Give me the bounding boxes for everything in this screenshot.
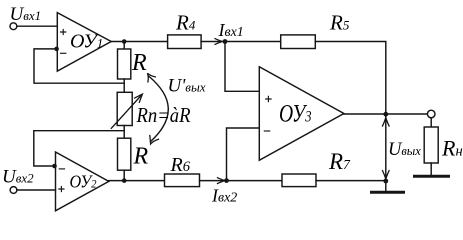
node OU2 minus input (52, 164, 57, 169)
wire OU3 output (344, 113, 428, 115)
OU2 plus pin (59, 186, 64, 191)
wire OU2 output to R6 (109, 180, 165, 182)
op-amp U2 (OU2) triangle (56, 152, 109, 211)
OU1 plus pin (61, 29, 66, 34)
ground (load) (415, 175, 449, 178)
wire Ivx1 node down to OU3 plus input (225, 42, 259, 92)
node OU1 minus input (54, 47, 59, 52)
voltage arrow Uvyh (double headed) (385, 116, 387, 180)
resistor R (lower) (118, 138, 131, 170)
OU1 minus pin (61, 52, 66, 54)
node ground junction (383, 179, 388, 184)
node output (383, 112, 388, 117)
resistor R5 (281, 35, 316, 49)
wire stem R lower to OU2 output node (123, 170, 125, 180)
resistor R (upper) (118, 49, 131, 79)
wire Ivx2 node up to OU3 minus input (227, 128, 260, 181)
wire Ivx1 node to R5 (225, 41, 281, 43)
svg-text:R: R (131, 50, 147, 76)
svg-text:Uвх1: Uвх1 (10, 4, 42, 25)
wire R6 to node Ivx2 (200, 180, 225, 182)
OU2 minus pin (59, 168, 64, 170)
Rn adjustment arrow (111, 95, 141, 128)
wire OU2 feedback loop (34, 131, 124, 166)
op-amp U1 (OU1) triangle (57, 13, 111, 72)
annotation curved arrow U'vyh (149, 76, 169, 142)
resistor R4 (168, 35, 202, 49)
resistor R7 (282, 174, 316, 187)
resistor Rn (adjustable) (117, 92, 132, 125)
svg-text:Rn=àR: Rn=àR (136, 103, 191, 127)
wire R4 to node Ivx1 (201, 41, 222, 43)
svg-text:R: R (133, 144, 149, 170)
load resistor Rn (Rh) (430, 118, 432, 127)
wire stem between Rn and R lower (123, 126, 125, 139)
terminal Uvx1 (10, 23, 17, 30)
wire Uvx1 to OU1 + input (17, 25, 58, 27)
OU3 plus pin (266, 96, 271, 101)
resistor chain stem from OU1 output (123, 42, 125, 50)
wire OU1 feedback loop (34, 49, 124, 83)
resistor R6 (165, 174, 200, 187)
OU3 minus pin (264, 130, 269, 132)
node Ivx2 (224, 178, 229, 183)
wire stem between R upper and Rn (123, 79, 125, 93)
terminal Uvx2 (10, 187, 17, 194)
wire Uvx2 to OU2 + input (17, 189, 56, 191)
node OU1 output (122, 39, 127, 44)
wire R7 to ground node (316, 180, 386, 182)
svg-text:U'вых: U'вых (168, 75, 206, 96)
terminal output (427, 110, 435, 118)
current arrow Ivx1 (215, 39, 222, 45)
node OU2 output (122, 178, 127, 183)
wire R5 to right corner and down to output node (315, 42, 386, 115)
svg-text:Uвх2: Uвх2 (2, 166, 34, 187)
ground (main) (385, 181, 387, 192)
wire Ivx2 node to R7 (227, 180, 283, 182)
op-amp U3 (OU3) triangle (259, 67, 344, 161)
wire OU1 output to R4 (111, 41, 167, 43)
current arrow Ivx2 (218, 178, 225, 184)
node Ivx1 (223, 39, 228, 44)
